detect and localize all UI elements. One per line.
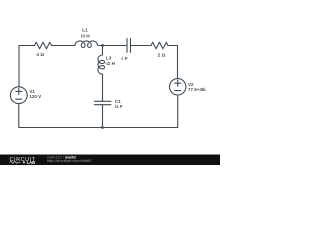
wire capacitor to R2: [131, 45, 152, 47]
svg-text:L3: L3: [106, 55, 112, 60]
inductor L1: [75, 41, 98, 48]
capacitor -i F plates: [127, 39, 131, 53]
V2 minus sign: [175, 90, 181, 92]
inductor L3 vertical with leads: [98, 46, 105, 102]
footer logo zigzag: [10, 161, 21, 163]
svg-text:2 Ω: 2 Ω: [158, 52, 166, 58]
svg-text:http://circuitlab.com/c6tbk7: http://circuitlab.com/c6tbk7: [47, 159, 92, 163]
bottom rail wire: [19, 127, 178, 129]
svg-text:4 Ω: 4 Ω: [36, 52, 44, 58]
footer black bar: [0, 155, 220, 166]
svg-text:77.5+45i: 77.5+45i: [188, 87, 206, 92]
V1 minus sign: [16, 98, 22, 100]
voltage source V1 circle: [10, 87, 27, 104]
bottom rail junction dot: [101, 126, 104, 129]
wire V1 bottom to bottom-left corner: [18, 104, 20, 128]
svg-text:-i2 H: -i2 H: [105, 61, 116, 66]
resistor R1 4 Ω: [35, 42, 52, 49]
V2 plus sign: [175, 80, 181, 86]
wire left vertical top segment to V1: [18, 46, 20, 87]
wire R2 to top-right corner and down to V2: [168, 46, 178, 79]
wire L1 to node A: [98, 45, 127, 47]
svg-text:-i F: -i F: [121, 56, 128, 62]
capacitor C1 plates: [94, 101, 111, 104]
wire top-left corner to R1: [19, 45, 35, 47]
wire R1 to L1: [52, 45, 76, 47]
V1 plus sign: [16, 88, 22, 94]
svg-text:LAB: LAB: [27, 160, 36, 165]
svg-text:i3 H: i3 H: [81, 34, 90, 40]
svg-text:L1: L1: [82, 28, 88, 34]
node A junction dot: [101, 44, 104, 47]
svg-text:i1 F: i1 F: [115, 104, 123, 109]
wire C1 to bottom rail: [102, 105, 104, 128]
resistor R2 2 Ω: [151, 42, 168, 49]
footer logo diamond: [23, 161, 26, 164]
wire V2 bottom to bottom-right corner: [177, 95, 179, 128]
svg-text:120 V: 120 V: [29, 94, 41, 99]
voltage source V2 circle: [170, 79, 186, 95]
